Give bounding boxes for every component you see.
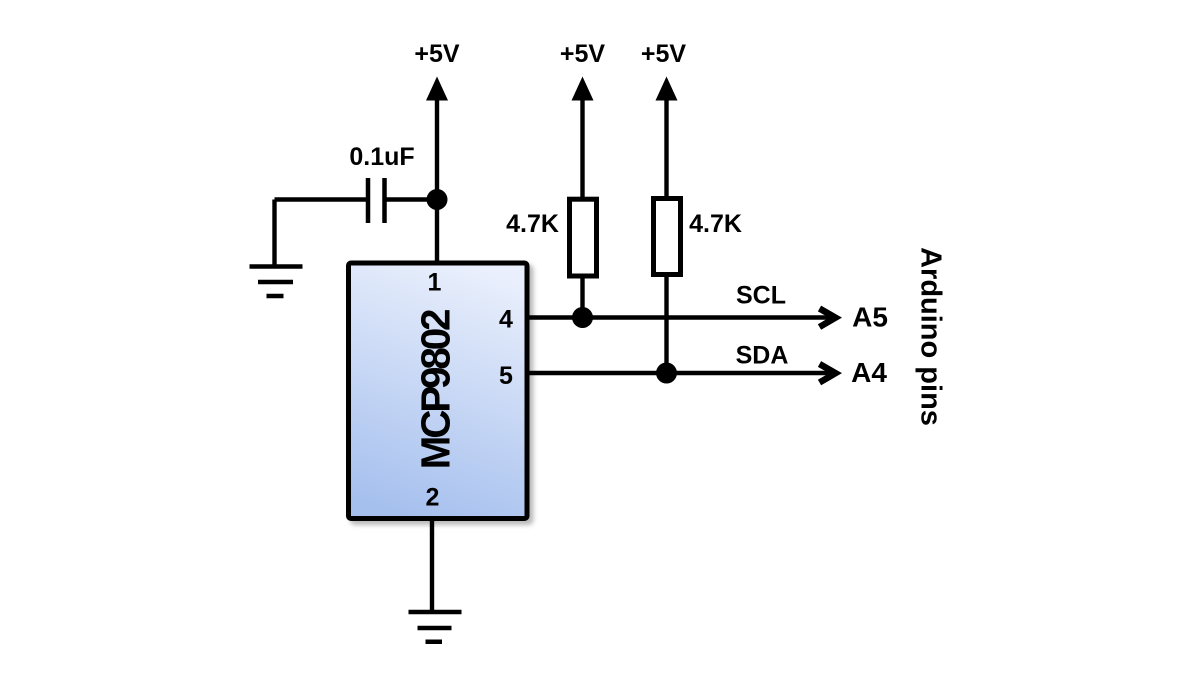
- svg-text:5: 5: [499, 362, 513, 390]
- svg-text:1: 1: [428, 269, 442, 297]
- svg-text:MCP9802: MCP9802: [413, 310, 459, 469]
- svg-text:4: 4: [499, 306, 513, 334]
- svg-text:4.7K: 4.7K: [506, 210, 559, 238]
- svg-text:Arduino pins: Arduino pins: [915, 247, 947, 426]
- svg-text:SDA: SDA: [736, 342, 789, 370]
- svg-text:2: 2: [426, 484, 440, 512]
- svg-text:A4: A4: [851, 357, 887, 388]
- svg-text:+5V: +5V: [641, 40, 687, 68]
- svg-text:4.7K: 4.7K: [689, 210, 742, 238]
- svg-text:+5V: +5V: [414, 40, 460, 68]
- svg-text:0.1uF: 0.1uF: [349, 143, 414, 171]
- svg-text:A5: A5: [852, 302, 888, 333]
- svg-text:SCL: SCL: [736, 282, 786, 310]
- svg-text:+5V: +5V: [560, 40, 606, 68]
